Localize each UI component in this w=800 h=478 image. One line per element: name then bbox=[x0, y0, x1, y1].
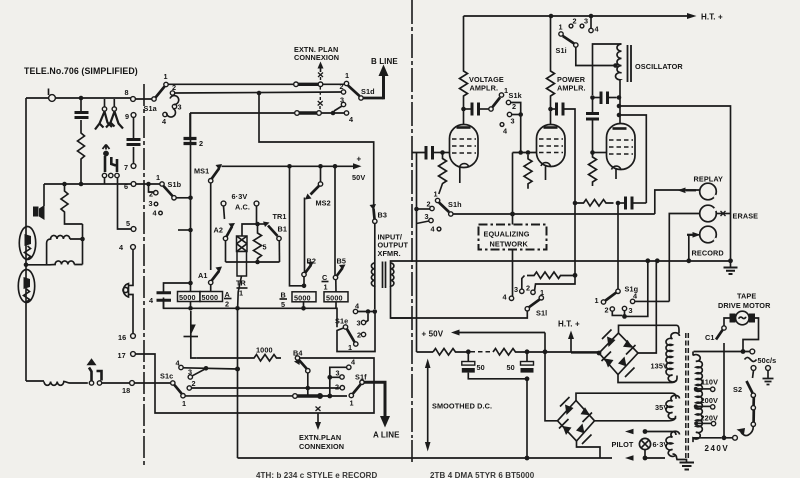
wire: S1a-2 to S1d-2 (y93) bbox=[175, 92, 341, 93]
node bbox=[287, 164, 292, 169]
svg-text:TAPE: TAPE bbox=[737, 292, 756, 301]
50c/s input terminal bbox=[694, 351, 751, 353]
osc grid entry + grid resistor bbox=[593, 152, 607, 154]
tube V3 (oscillator) bbox=[607, 124, 636, 170]
coupling capacitor (P amp anode) bbox=[551, 108, 556, 110]
control unit bottom bus bbox=[164, 298, 338, 328]
svg-text:3: 3 bbox=[357, 319, 361, 328]
svg-text:5: 5 bbox=[281, 300, 285, 309]
svg-text:4TH: b 234 c STYLE e RECORD: 4TH: b 234 c STYLE e RECORD bbox=[256, 471, 378, 478]
bottom frame line (telephone to PSU earth) bbox=[238, 457, 613, 459]
svg-text:2: 2 bbox=[192, 379, 196, 388]
wire: bridge2 bottom DC to earth rail bbox=[577, 441, 601, 458]
wire: cap2 top to link row (y113) bbox=[190, 112, 295, 114]
wire: S1c-1 to link to S1f-1 (y396) bbox=[185, 395, 293, 397]
svg-text:B1: B1 bbox=[278, 225, 288, 234]
svg-text:B5: B5 bbox=[337, 257, 347, 266]
signal/earth bus y261 bbox=[412, 260, 731, 262]
capacitor (osc feedback, horizontal) bbox=[593, 97, 601, 99]
svg-text:2: 2 bbox=[427, 200, 431, 209]
svg-text:220V: 220V bbox=[701, 414, 718, 423]
svg-text:1: 1 bbox=[348, 343, 352, 352]
svg-text:2: 2 bbox=[335, 383, 339, 392]
svg-text:6·3V: 6·3V bbox=[653, 440, 669, 449]
wire: sidetone drop to B3 feed bbox=[259, 93, 374, 208]
tap 110V bbox=[694, 387, 698, 391]
node bbox=[62, 182, 67, 187]
svg-text:2: 2 bbox=[357, 331, 361, 340]
wire: jack J2 right contact to terminal 5 bbox=[118, 178, 132, 229]
wire: grid node to equalizer / S1l-4 bbox=[512, 153, 514, 297]
resistor below capacitor bbox=[78, 120, 85, 184]
svg-text:+: + bbox=[357, 155, 362, 164]
grid input: coupling cap from divider bbox=[412, 152, 425, 154]
power amp grid node bbox=[513, 115, 537, 153]
svg-text:TR1: TR1 bbox=[273, 212, 287, 221]
wire: caps common down to earth rail bbox=[526, 379, 528, 458]
wire: speech bus y184 bbox=[44, 183, 131, 185]
svg-text:3: 3 bbox=[584, 17, 588, 26]
svg-text:H.T. +: H.T. + bbox=[558, 320, 580, 329]
svg-text:A2: A2 bbox=[214, 226, 224, 235]
svg-text:1: 1 bbox=[164, 72, 168, 81]
anode stem + tube V1 (voltage amplifier) bbox=[463, 109, 465, 127]
wire: left main vertical bbox=[25, 98, 27, 381]
receiver symbol bbox=[49, 95, 56, 102]
svg-text:35V: 35V bbox=[655, 403, 668, 412]
svg-text:EQUALIZING: EQUALIZING bbox=[484, 230, 530, 239]
wire: erase to S1g-4 drop bbox=[669, 214, 699, 302]
switch S1a bbox=[135, 98, 154, 100]
svg-text:50V: 50V bbox=[352, 173, 365, 182]
wire: MS2 to B2 vertical bbox=[304, 198, 306, 273]
svg-text:16: 16 bbox=[118, 333, 126, 342]
svg-text:S1k: S1k bbox=[509, 91, 523, 100]
svg-text:3: 3 bbox=[629, 306, 633, 315]
resistor bank A (5000 5000) bbox=[164, 283, 191, 308]
wire: S1a-1 to extn link (y84) bbox=[168, 83, 294, 85]
svg-text:3: 3 bbox=[340, 96, 344, 105]
switch S1c bbox=[134, 382, 171, 384]
svg-text:CONNEXION: CONNEXION bbox=[299, 442, 344, 451]
transformer core bbox=[686, 333, 689, 459]
switch B5 bbox=[334, 166, 336, 275]
coil (dial line) bbox=[44, 382, 88, 386]
wire: motor right lead to mains input bbox=[743, 318, 759, 350]
svg-text:OSCILLATOR: OSCILLATOR bbox=[635, 62, 683, 71]
svg-text:5000: 5000 bbox=[326, 293, 343, 302]
svg-text:1: 1 bbox=[182, 399, 186, 408]
terminal 16 bbox=[131, 334, 136, 339]
svg-text:B LINE: B LINE bbox=[371, 57, 398, 66]
node bbox=[79, 182, 84, 187]
svg-text:240V: 240V bbox=[705, 444, 730, 453]
heads: ERASE bbox=[700, 205, 717, 222]
A LINE arrow bbox=[364, 382, 385, 418]
wire: hook switch to terminal 18 bbox=[102, 382, 130, 384]
wire: bridge1 right DC to earth bus riser bbox=[638, 263, 656, 354]
jack J1 plug springs bbox=[95, 112, 112, 130]
wire: stub at y230 bbox=[178, 229, 191, 231]
svg-text:1: 1 bbox=[345, 71, 349, 80]
smoothed d.c. span arrow bbox=[427, 366, 429, 444]
svg-text:B: B bbox=[281, 291, 286, 300]
smoothing capacitor 2 (50) bbox=[526, 352, 528, 361]
capacitor (top left) bbox=[80, 98, 82, 112]
svg-text:7: 7 bbox=[124, 163, 128, 172]
svg-text:S1a: S1a bbox=[144, 104, 158, 113]
feedback resistor (S1l) bbox=[527, 272, 575, 279]
svg-text:50: 50 bbox=[477, 363, 485, 372]
wire: bridge1 bottom AC to 135V winding bottom bbox=[618, 375, 677, 383]
main telephone-set vertical x190 bbox=[190, 113, 192, 291]
switch S1h bbox=[435, 198, 439, 202]
wire: osc coil bottom / anode column bbox=[619, 80, 621, 127]
svg-text:S1b: S1b bbox=[168, 180, 182, 189]
node: junction on receiver line bbox=[79, 96, 84, 101]
svg-text:A: A bbox=[225, 290, 231, 299]
bell bbox=[123, 284, 128, 298]
svg-text:18: 18 bbox=[122, 386, 130, 395]
svg-text:2TB 4 DMA 5TYR 6 BT5000: 2TB 4 DMA 5TYR 6 BT5000 bbox=[430, 471, 535, 478]
wire: erase feed line to x730 bbox=[619, 106, 731, 260]
terminal 17 bbox=[131, 352, 136, 357]
svg-text:S1d: S1d bbox=[361, 87, 375, 96]
wire: bridge2 left DC to +50V node bbox=[545, 352, 558, 421]
6.3V winding bottom to chassis ground bbox=[673, 454, 687, 462]
grid leak resistor to S1h bbox=[439, 153, 447, 195]
earth terminal (mains) bbox=[766, 366, 771, 371]
diode rectifier (line) bbox=[191, 311, 197, 358]
wire: primary bottom = 240V line bbox=[693, 437, 722, 439]
wire: bypass from +50V rail to B2 foot bbox=[290, 166, 303, 285]
wire: bridge2 right AC to 35V winding bottom bbox=[595, 416, 676, 421]
extn plan arrow + cross (bottom) bbox=[316, 407, 321, 412]
wire: xfmr secondary top to signal bus y261 bbox=[391, 261, 412, 263]
centre divider chain line bbox=[411, 0, 413, 438]
terminal 5 bbox=[131, 227, 136, 232]
speaker (earpiece) bbox=[33, 207, 39, 217]
svg-text:9: 9 bbox=[125, 112, 129, 121]
extn link lower bbox=[295, 111, 300, 116]
svg-text:3: 3 bbox=[336, 369, 340, 378]
anode RC network (osc) bbox=[573, 201, 578, 206]
svg-text:2: 2 bbox=[340, 82, 344, 91]
svg-text:1: 1 bbox=[434, 190, 438, 199]
svg-text:2: 2 bbox=[526, 284, 530, 293]
wire: bell to terminal 16 bbox=[129, 295, 134, 334]
svg-text:C: C bbox=[322, 273, 328, 282]
selector S2 bbox=[751, 366, 756, 371]
svg-text:5: 5 bbox=[126, 219, 130, 228]
anode resistor (voltage amp) bbox=[460, 16, 468, 109]
wire: x416 feed (grid cap / S1h / +50V rail) bbox=[416, 153, 418, 353]
wire: TR bottom lead to bus bbox=[238, 276, 242, 308]
grid resistor (power amp, open end) bbox=[524, 155, 532, 189]
svg-text:S1e: S1e bbox=[335, 317, 348, 326]
svg-text:8: 8 bbox=[125, 88, 129, 97]
induction coil winding 1 bbox=[47, 235, 83, 264]
coupling capacitor (V amp anode) bbox=[464, 108, 472, 110]
svg-text:C1: C1 bbox=[705, 333, 715, 342]
wire: vertical to coil junctions bbox=[82, 224, 84, 265]
svg-text:CONNEXION: CONNEXION bbox=[294, 53, 339, 62]
240V tap terminal bbox=[733, 435, 738, 440]
jack J1 contacts (upper) bbox=[102, 107, 106, 111]
regulator tube 2 (barretter) bbox=[18, 270, 34, 303]
svg-text:S2: S2 bbox=[733, 385, 742, 394]
wire: osc coil top to grid cap node bbox=[593, 44, 622, 95]
svg-text:S1l: S1l bbox=[536, 309, 547, 318]
jack J2 (lower, with plug) bbox=[103, 145, 110, 150]
svg-text:1: 1 bbox=[156, 173, 160, 182]
svg-text:DRIVE MOTOR: DRIVE MOTOR bbox=[718, 301, 771, 310]
mains transformer 135V winding bbox=[666, 333, 680, 382]
svg-text:A.C.: A.C. bbox=[235, 203, 250, 212]
wire: MS1 contact vertical to A1 bbox=[210, 183, 212, 270]
svg-text:135V: 135V bbox=[651, 362, 668, 371]
switch S1k bbox=[489, 107, 493, 111]
capacitor 2 bbox=[189, 113, 191, 137]
terminal 4 bbox=[131, 245, 136, 250]
wire: telephone line loop 17 to B4 run bbox=[135, 354, 374, 413]
equalizing network box bbox=[479, 225, 547, 250]
svg-text:5000: 5000 bbox=[294, 293, 311, 302]
terminal 7 bbox=[131, 164, 136, 169]
tap 220V bbox=[694, 421, 698, 425]
pilot lamp row bbox=[645, 432, 676, 436]
smoothed DC rail bbox=[417, 351, 434, 353]
resistor 5 (relay shunt) bbox=[255, 222, 260, 227]
capacitor between 9 and 7 bbox=[133, 117, 135, 163]
svg-text:H.T. +: H.T. + bbox=[701, 13, 723, 22]
node bbox=[318, 164, 323, 169]
wire: x237 vertical (bus to bottom frame) bbox=[237, 308, 239, 458]
induction coil winding 2 bbox=[25, 261, 82, 265]
switch MS2 bbox=[320, 166, 322, 182]
input/output transformer bbox=[371, 263, 374, 286]
svg-text:+ 50V: + 50V bbox=[422, 330, 444, 339]
wire: x575 column (P-amp coupling to S1l) bbox=[574, 203, 576, 275]
tube V2 (power amplifier) bbox=[550, 109, 552, 127]
heads: RECORD bbox=[700, 226, 717, 243]
resistor (speech circuit) bbox=[61, 184, 83, 224]
svg-text:17: 17 bbox=[118, 351, 126, 360]
svg-text:2: 2 bbox=[149, 190, 153, 199]
relay TR coil bbox=[256, 206, 258, 224]
node bbox=[333, 164, 338, 169]
wire: S1h common to replay riser bbox=[453, 213, 655, 215]
wire: +50V rail (top of control unit) bbox=[222, 165, 355, 167]
wire: bridge2 top AC to 35V winding top bbox=[576, 393, 676, 400]
left section divider chain line bbox=[143, 84, 145, 467]
svg-text:1: 1 bbox=[595, 296, 599, 305]
wire: jack J2 left contact to speech bus bbox=[104, 178, 106, 184]
mains transformer 35V winding bbox=[666, 395, 680, 419]
svg-text:AMPLR.: AMPLR. bbox=[557, 84, 586, 93]
smoothing capacitor 1 (50) bbox=[467, 352, 469, 361]
svg-text:2: 2 bbox=[199, 139, 203, 148]
svg-text:3: 3 bbox=[511, 117, 515, 126]
svg-text:2: 2 bbox=[605, 306, 609, 315]
svg-text:3: 3 bbox=[514, 285, 518, 294]
svg-text:NETWORK: NETWORK bbox=[490, 240, 529, 249]
wire: osc grid top row to RC bbox=[619, 115, 646, 203]
bridge rectifier 2 (35V) bbox=[558, 401, 595, 442]
regulator tube 1 (barretter) bbox=[19, 227, 35, 260]
svg-text:RECORD: RECORD bbox=[692, 249, 724, 258]
svg-text:50: 50 bbox=[507, 363, 515, 372]
wire: RC node down to S1g pivot bbox=[617, 203, 619, 289]
wire: 6.3V loop bottom bbox=[226, 261, 280, 263]
node bbox=[461, 107, 466, 112]
terminal 18 bbox=[130, 381, 135, 386]
wire: left vertical bottom to dial pulse coil bbox=[26, 380, 44, 382]
terminal 8 bbox=[131, 97, 136, 102]
svg-text:6: 6 bbox=[124, 182, 128, 191]
svg-text:3: 3 bbox=[188, 368, 192, 377]
svg-text:S1i: S1i bbox=[556, 46, 567, 55]
svg-text:5000: 5000 bbox=[179, 293, 196, 302]
svg-text:5: 5 bbox=[263, 243, 267, 252]
svg-text:SMOOTHED D.C.: SMOOTHED D.C. bbox=[432, 402, 492, 411]
switch S1l bbox=[512, 295, 514, 297]
H.T.+ supply rail (top) bbox=[464, 15, 689, 17]
switch S1d bbox=[344, 81, 348, 85]
svg-text:1: 1 bbox=[559, 23, 563, 32]
svg-text:ERASE: ERASE bbox=[733, 212, 759, 221]
tap 200V bbox=[694, 404, 698, 408]
wire: S1i pivot to oscillator coil tap bbox=[576, 47, 614, 65]
node: junction on left vertical bbox=[24, 263, 29, 268]
wire: S1c-2 to S1f-2 (y388) bbox=[192, 387, 341, 389]
wire: receiver line to terminal 8 bbox=[26, 97, 133, 99]
bridge rectifier 1 (H.T.) bbox=[599, 333, 638, 375]
svg-text:AMPLR.: AMPLR. bbox=[470, 84, 499, 93]
svg-text:5000: 5000 bbox=[202, 293, 219, 302]
terminal 6 bbox=[131, 182, 136, 187]
B LINE arrow bbox=[382, 74, 385, 99]
svg-text:1: 1 bbox=[540, 288, 544, 297]
node on y93 wire bbox=[257, 91, 262, 96]
svg-text:2: 2 bbox=[512, 102, 516, 111]
mains primary winding bbox=[693, 352, 702, 443]
svg-text:1: 1 bbox=[324, 283, 328, 292]
wire: primary top to mains terminal bbox=[692, 351, 694, 353]
switch S1b bbox=[136, 183, 160, 185]
svg-text:6·3V: 6·3V bbox=[232, 192, 248, 201]
svg-text:MS2: MS2 bbox=[316, 199, 331, 208]
svg-text:A LINE: A LINE bbox=[373, 431, 400, 440]
wire: xfmr primary bottom down to S1e node bbox=[374, 286, 376, 309]
svg-text:A1: A1 bbox=[198, 271, 208, 280]
capacitor (osc grid, vertical) bbox=[590, 95, 595, 100]
svg-text:3: 3 bbox=[149, 199, 153, 208]
svg-text:1: 1 bbox=[350, 399, 354, 408]
wire: xfmr secondary bottom to y318 run bbox=[391, 286, 413, 318]
svg-text:1: 1 bbox=[239, 289, 243, 298]
node bbox=[331, 111, 336, 116]
svg-text:TELE.No.706 (SIMPLIFIED): TELE.No.706 (SIMPLIFIED) bbox=[24, 66, 138, 76]
oscillator coil bbox=[616, 44, 622, 80]
svg-text:MS1: MS1 bbox=[194, 167, 209, 176]
chassis ground (head bus) bbox=[730, 261, 732, 267]
hook switch bbox=[89, 381, 93, 385]
anode resistor (power amp) bbox=[547, 16, 555, 109]
extn link upper bbox=[294, 82, 299, 87]
svg-text:EXTN.PLAN: EXTN.PLAN bbox=[299, 433, 341, 442]
svg-text:1000: 1000 bbox=[256, 346, 273, 355]
switch S1i bbox=[559, 32, 563, 36]
wire: bridge1 top AC to 135V winding bbox=[619, 325, 680, 333]
mains transformer 6.3V winding bbox=[666, 431, 680, 456]
svg-text:S1h: S1h bbox=[448, 200, 462, 209]
svg-text:2: 2 bbox=[225, 300, 229, 309]
svg-text:3: 3 bbox=[425, 212, 429, 221]
extn link (bottom) bbox=[293, 394, 298, 399]
wire: terminal 4 to bell bbox=[129, 249, 134, 285]
svg-text:B3: B3 bbox=[378, 211, 388, 220]
svg-text:2: 2 bbox=[573, 17, 577, 26]
speaker hanger bbox=[43, 184, 45, 206]
switch B3 bbox=[370, 204, 377, 210]
svg-text:PILOT: PILOT bbox=[612, 440, 634, 449]
terminal 9 bbox=[131, 113, 136, 118]
switch C1 bbox=[724, 318, 730, 326]
svg-text:XFMR.: XFMR. bbox=[378, 249, 401, 258]
svg-text:200V: 200V bbox=[701, 396, 718, 405]
svg-text:REPLAY: REPLAY bbox=[694, 175, 724, 184]
svg-text:110V: 110V bbox=[701, 378, 718, 387]
svg-text:S1c: S1c bbox=[160, 372, 173, 381]
svg-text:50c/s: 50c/s bbox=[758, 356, 777, 365]
